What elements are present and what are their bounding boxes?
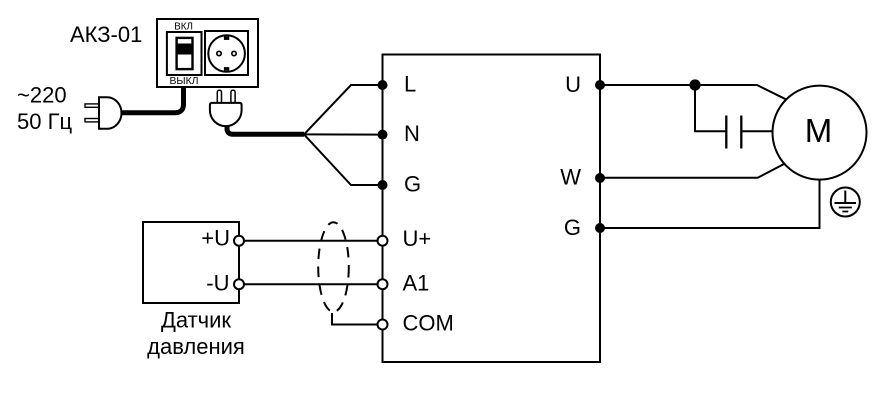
svg-text:+U: +U <box>201 226 230 251</box>
svg-text:М: М <box>805 112 833 149</box>
pressure sensor box <box>143 222 239 303</box>
terminal U+ <box>378 236 388 246</box>
wire branch to L <box>304 85 383 134</box>
mains plug body <box>99 97 122 129</box>
junction node on U wire <box>689 79 700 90</box>
svg-text:Датчик: Датчик <box>161 308 231 333</box>
terminal COM <box>378 320 388 330</box>
capacitor C1 plate left <box>725 116 727 149</box>
svg-text:давления: давления <box>147 334 245 359</box>
power module box <box>157 19 258 87</box>
wire G to motor earth <box>600 180 820 228</box>
plug X2 prong right <box>231 90 235 104</box>
svg-text:U+: U+ <box>403 226 432 251</box>
terminal N <box>378 130 388 140</box>
svg-text:L: L <box>404 72 416 97</box>
svg-text:ВКЛ: ВКЛ <box>174 21 193 32</box>
svg-text:АКЗ-01: АКЗ-01 <box>70 22 142 47</box>
terminal U <box>595 80 605 90</box>
switch S1 housing <box>167 32 202 75</box>
plug X2 body <box>210 103 242 126</box>
cable from plug X2 to branch point <box>227 124 304 134</box>
socket outlet circle <box>208 35 245 72</box>
plug X2 prong left <box>217 90 221 104</box>
capacitor C1 plate right <box>740 116 742 149</box>
wire capacitor to motor <box>741 130 772 132</box>
wire U to motor <box>600 85 786 99</box>
svg-text:G: G <box>564 215 581 240</box>
cable from mains plug to power module <box>121 87 184 113</box>
terminal G (right) <box>595 223 605 233</box>
mains plug prong bottom <box>85 119 100 122</box>
shield dashed ellipse <box>318 222 349 312</box>
switch S1 toggle <box>177 38 193 69</box>
svg-text:COM: COM <box>403 311 454 336</box>
svg-text:50 Гц: 50 Гц <box>17 109 72 134</box>
wire -U to A1 <box>239 283 383 285</box>
socket hole left <box>217 51 221 55</box>
wire +U to U+ <box>239 240 383 242</box>
svg-text:-U: -U <box>206 271 229 296</box>
terminal W <box>595 173 605 183</box>
wire junction down to capacitor <box>695 85 726 131</box>
socket outlet square <box>205 31 248 75</box>
socket earth clip bottom <box>224 67 229 71</box>
svg-text:W: W <box>560 164 581 189</box>
terminal G (input) <box>378 180 388 190</box>
wire shield to COM <box>332 313 383 325</box>
svg-text:N: N <box>404 121 420 146</box>
wire branch to N <box>304 133 383 135</box>
svg-text:G: G <box>404 172 421 197</box>
controller box <box>383 55 601 363</box>
svg-text:ВЫКЛ: ВЫКЛ <box>169 76 198 87</box>
socket earth clip top <box>224 36 229 40</box>
protective earth symbol <box>831 188 860 217</box>
terminal L <box>378 80 388 90</box>
svg-text:A1: A1 <box>403 271 430 296</box>
wire branch to G <box>304 134 383 185</box>
mains plug prong top <box>85 104 100 107</box>
motor M <box>773 86 867 180</box>
socket hole right <box>232 51 236 55</box>
svg-text:U: U <box>565 72 581 97</box>
svg-text:~220: ~220 <box>17 83 67 108</box>
wire W to motor <box>600 164 784 178</box>
terminal -U <box>234 279 244 289</box>
terminal +U <box>234 236 244 246</box>
terminal A1 <box>378 279 388 289</box>
